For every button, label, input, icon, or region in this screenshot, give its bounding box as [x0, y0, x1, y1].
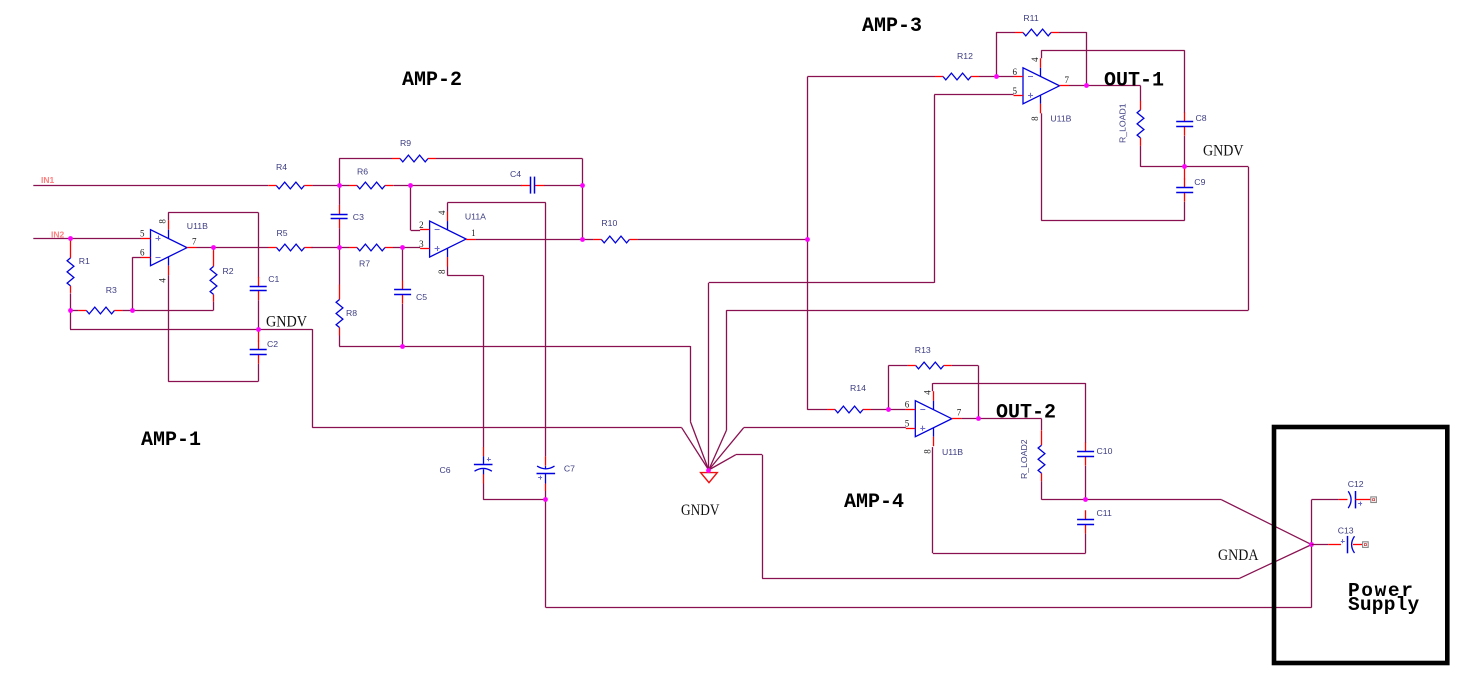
wire amp3 pin5 row: [934, 94, 1013, 96]
svg-text:R_LOAD1: R_LOAD1: [1118, 103, 1128, 143]
svg-text:R4: R4: [276, 162, 287, 172]
capacitor C11: [1077, 508, 1112, 534]
resistor R14: [827, 383, 871, 413]
svg-text:8: 8: [1030, 116, 1040, 121]
junction: [805, 237, 810, 242]
wire R10 right: [637, 239, 807, 241]
wire R12 row: [807, 76, 1013, 78]
junction: [400, 344, 405, 349]
wire amp4 bottom rail: [933, 447, 1086, 553]
capacitor C2: [250, 339, 279, 364]
wire R5 right: [312, 247, 340, 249]
svg-text:R1: R1: [79, 256, 90, 266]
wire C5 bottom: [402, 304, 404, 346]
wire C7 bottom: [545, 491, 547, 500]
svg-text:GNDA: GNDA: [1218, 547, 1259, 564]
capacitor C3: [331, 205, 364, 228]
wire C2 bottom: [258, 364, 260, 382]
svg-text:R12: R12: [957, 51, 973, 61]
junction: [400, 245, 405, 250]
svg-text:8: 8: [158, 219, 168, 224]
junction: [68, 308, 73, 313]
junction: [1309, 542, 1314, 547]
svg-text:6: 6: [140, 248, 145, 258]
wire C2 red ext: [258, 330, 260, 342]
junction: [1084, 83, 1089, 88]
capacitor C8: [1176, 113, 1207, 136]
wire amp4 output: [961, 419, 1041, 431]
svg-text:C4: C4: [510, 169, 521, 179]
wire IN1 net: [33, 185, 339, 187]
node GNDV amp1: [266, 314, 308, 331]
svg-text:R10: R10: [601, 218, 617, 228]
svg-text:6: 6: [905, 400, 910, 410]
wire amp4 top rail: [933, 383, 1086, 443]
resistor R_LOAD2: [1019, 430, 1045, 481]
wire amp3 top rail: [1041, 50, 1185, 113]
wire R2 bottom: [133, 302, 214, 311]
node GNDV centre: [681, 502, 720, 519]
junction: [337, 183, 342, 188]
resistor R13: [908, 345, 952, 369]
svg-text:1: 1: [471, 228, 476, 238]
junction: [337, 245, 342, 250]
wire U11B-amp1 output: [197, 247, 214, 249]
wire C4 row: [411, 185, 583, 187]
wire C8 bottom: [1184, 136, 1186, 167]
wire amp1 bottom rail: [168, 275, 258, 381]
label OUT-1: [1104, 70, 1164, 93]
wire C9 red ext: [1184, 168, 1186, 180]
svg-text:8: 8: [923, 449, 933, 454]
resistor R10: [593, 218, 637, 243]
wire R13 loop: [888, 366, 978, 419]
svg-text:GNDV: GNDV: [1203, 143, 1244, 160]
wire pin6 U11B-amp1: [133, 257, 142, 310]
svg-text:IN2: IN2: [51, 230, 65, 240]
svg-text:R6: R6: [357, 167, 368, 177]
resistor R9: [392, 138, 436, 162]
resistor R11: [1015, 13, 1059, 36]
junction: [976, 416, 981, 421]
wire gnd fan D: [709, 428, 906, 471]
wire amp1 top rail: [168, 212, 258, 277]
capacitor C9: [1176, 177, 1205, 202]
svg-text:4: 4: [923, 390, 933, 395]
svg-text:R14: R14: [850, 383, 866, 393]
capacitor C6: [440, 447, 493, 484]
svg-text:Supply: Supply: [1348, 594, 1420, 616]
wire R5 left: [213, 247, 268, 249]
resistor R_LOAD1: [1118, 101, 1144, 146]
junction: [211, 245, 216, 250]
capacitor C4: [510, 169, 544, 194]
capacitor C7: [537, 456, 576, 491]
node GNDA: [1218, 547, 1259, 564]
svg-text:5: 5: [140, 229, 145, 239]
wire rload1 bottom: [1141, 146, 1185, 167]
wire amp2 bottom rail: [339, 346, 709, 470]
svg-text:AMP-1: AMP-1: [141, 429, 201, 452]
resistor R7: [349, 244, 393, 268]
wire gnd fan return: [709, 167, 1249, 471]
svg-text:C10: C10: [1097, 446, 1113, 456]
junction: [994, 74, 999, 79]
svg-text:5: 5: [905, 419, 910, 429]
svg-text:R8: R8: [346, 308, 357, 318]
wire R1 top: [70, 238, 72, 240]
svg-text:C12: C12: [1348, 479, 1364, 489]
wire C4 right vert: [582, 185, 584, 239]
resistor R5: [269, 228, 313, 251]
resistor R1: [67, 240, 90, 293]
svg-text:R7: R7: [359, 259, 370, 269]
svg-text:R11: R11: [1023, 13, 1038, 23]
wire amp1 gndv rail: [70, 311, 313, 428]
resistor R6: [349, 167, 393, 189]
svg-text:GNDV: GNDV: [266, 314, 308, 331]
svg-text:C9: C9: [1194, 177, 1205, 187]
wire C5 top: [402, 248, 404, 281]
op-amp U11B-amp4: [905, 390, 963, 457]
wire R9 loop: [339, 159, 582, 186]
svg-text:AMP-3: AMP-3: [862, 15, 922, 38]
svg-text:C1: C1: [268, 274, 279, 284]
capacitor C10: [1077, 443, 1113, 466]
op-amp U11A-amp2: [419, 210, 486, 274]
svg-text:C2: C2: [267, 339, 278, 349]
wire C3 bottom: [339, 228, 341, 248]
ground GNDV symbol: [701, 473, 718, 483]
svg-text:4: 4: [1030, 57, 1040, 62]
wire amp3 output: [1069, 86, 1141, 102]
svg-text:C7: C7: [564, 464, 575, 474]
wire C6 bottom: [483, 484, 546, 500]
svg-text:U11B: U11B: [187, 221, 208, 231]
junction: [68, 236, 73, 241]
wire gnd fan C: [708, 283, 710, 470]
junction: [130, 308, 135, 313]
wire psu c12 riser: [1312, 500, 1339, 545]
svg-text:U11B: U11B: [1050, 114, 1071, 124]
svg-text:U11B: U11B: [942, 447, 963, 457]
wire rload2 bottom: [1042, 481, 1086, 500]
op-amp U11B-amp1: [140, 219, 208, 283]
svg-text:7: 7: [192, 237, 197, 247]
wire R3 ends: [70, 310, 133, 312]
svg-text:GNDV: GNDV: [681, 502, 720, 519]
wire C10 bottom: [1085, 466, 1087, 500]
node GNDV right: [1203, 143, 1244, 160]
svg-text:U11A: U11A: [465, 212, 486, 222]
svg-text:C13: C13: [1338, 526, 1354, 536]
wire gnd fan E: [709, 455, 1312, 579]
junction: [580, 183, 585, 188]
wire R1 bottom: [70, 293, 72, 310]
wire R7 right: [393, 247, 420, 249]
resistor R3: [78, 285, 122, 314]
wire R11 loop: [996, 32, 1087, 86]
svg-text:3: 3: [419, 239, 424, 249]
svg-text:AMP-4: AMP-4: [844, 491, 904, 514]
svg-text:R9: R9: [400, 138, 411, 148]
junction: [706, 468, 711, 473]
svg-text:R5: R5: [277, 228, 288, 238]
svg-text:C5: C5: [416, 292, 427, 302]
svg-text:C3: C3: [353, 212, 364, 222]
wire C11 bottom: [1085, 534, 1087, 554]
junction: [256, 327, 261, 332]
wire amp3 input vert: [807, 77, 809, 410]
label AMP-1: [141, 429, 201, 452]
wire R14 row: [807, 409, 905, 411]
svg-text:4: 4: [158, 278, 168, 283]
label AMP-4: [844, 491, 904, 514]
junction: [408, 183, 413, 188]
svg-text:AMP-2: AMP-2: [402, 69, 462, 92]
wire amp4 mid to psu: [1086, 500, 1312, 545]
wire amp2 pin8 jog: [447, 267, 483, 448]
wire C1 bottom: [258, 300, 260, 329]
label Power Supply: [1348, 580, 1420, 616]
wire IN2 net: [33, 238, 141, 240]
wire R6 left: [339, 185, 349, 187]
wire C9 bottom: [1184, 202, 1186, 221]
svg-text:IN1: IN1: [41, 175, 55, 185]
node IN1: [41, 175, 55, 185]
junction: [1083, 497, 1088, 502]
svg-text:R_LOAD2: R_LOAD2: [1019, 439, 1029, 479]
svg-text:R3: R3: [106, 285, 117, 295]
resistor R12: [935, 51, 979, 80]
resistor R8: [336, 285, 357, 336]
svg-text:OUT-1: OUT-1: [1104, 70, 1164, 93]
junction: [580, 237, 585, 242]
op-amp U11B-amp3: [1013, 57, 1072, 124]
svg-text:C11: C11: [1097, 508, 1112, 518]
capacitor C5: [394, 281, 427, 304]
svg-text:R13: R13: [915, 345, 931, 355]
label AMP-2: [402, 69, 462, 92]
wire R2 top: [213, 248, 215, 251]
junction: [543, 497, 548, 502]
wire amp2 top rail: [447, 203, 546, 457]
svg-text:OUT-2: OUT-2: [996, 402, 1056, 425]
wire C9 top red: [0, 0, 1, 1]
svg-text:6: 6: [1013, 67, 1018, 77]
wire amp3 bottom rail: [1041, 113, 1185, 220]
svg-text:R2: R2: [223, 266, 234, 276]
junction: [1182, 164, 1187, 169]
wire R7 left: [339, 247, 349, 249]
label OUT-2: [996, 402, 1056, 425]
box Power Supply: [1274, 427, 1447, 663]
wire gnd fan C horiz: [709, 95, 935, 283]
wire U11A output: [476, 239, 594, 241]
resistor R4: [268, 162, 312, 189]
label AMP-3: [862, 15, 922, 38]
wire R8 bottom: [339, 336, 341, 347]
svg-text:8: 8: [437, 269, 447, 274]
wire pin2 U11A: [411, 185, 421, 230]
wire bottom long: [546, 500, 1312, 608]
svg-text:7: 7: [1065, 75, 1070, 85]
capacitor C13: [1312, 526, 1369, 554]
svg-text:C6: C6: [440, 465, 451, 475]
svg-text:C8: C8: [1196, 113, 1207, 123]
capacitor C1: [250, 274, 280, 300]
resistor R2: [210, 250, 234, 301]
node IN2: [51, 230, 65, 240]
wire C3 top: [339, 185, 341, 205]
svg-text:4: 4: [437, 210, 447, 215]
svg-text:7: 7: [957, 408, 962, 418]
capacitor C12: [1339, 479, 1377, 508]
wire gnd fan A: [312, 428, 708, 471]
svg-text:2: 2: [419, 220, 424, 230]
wire R6 right: [393, 185, 411, 187]
wire R8 top: [339, 248, 341, 285]
junction: [886, 407, 891, 412]
